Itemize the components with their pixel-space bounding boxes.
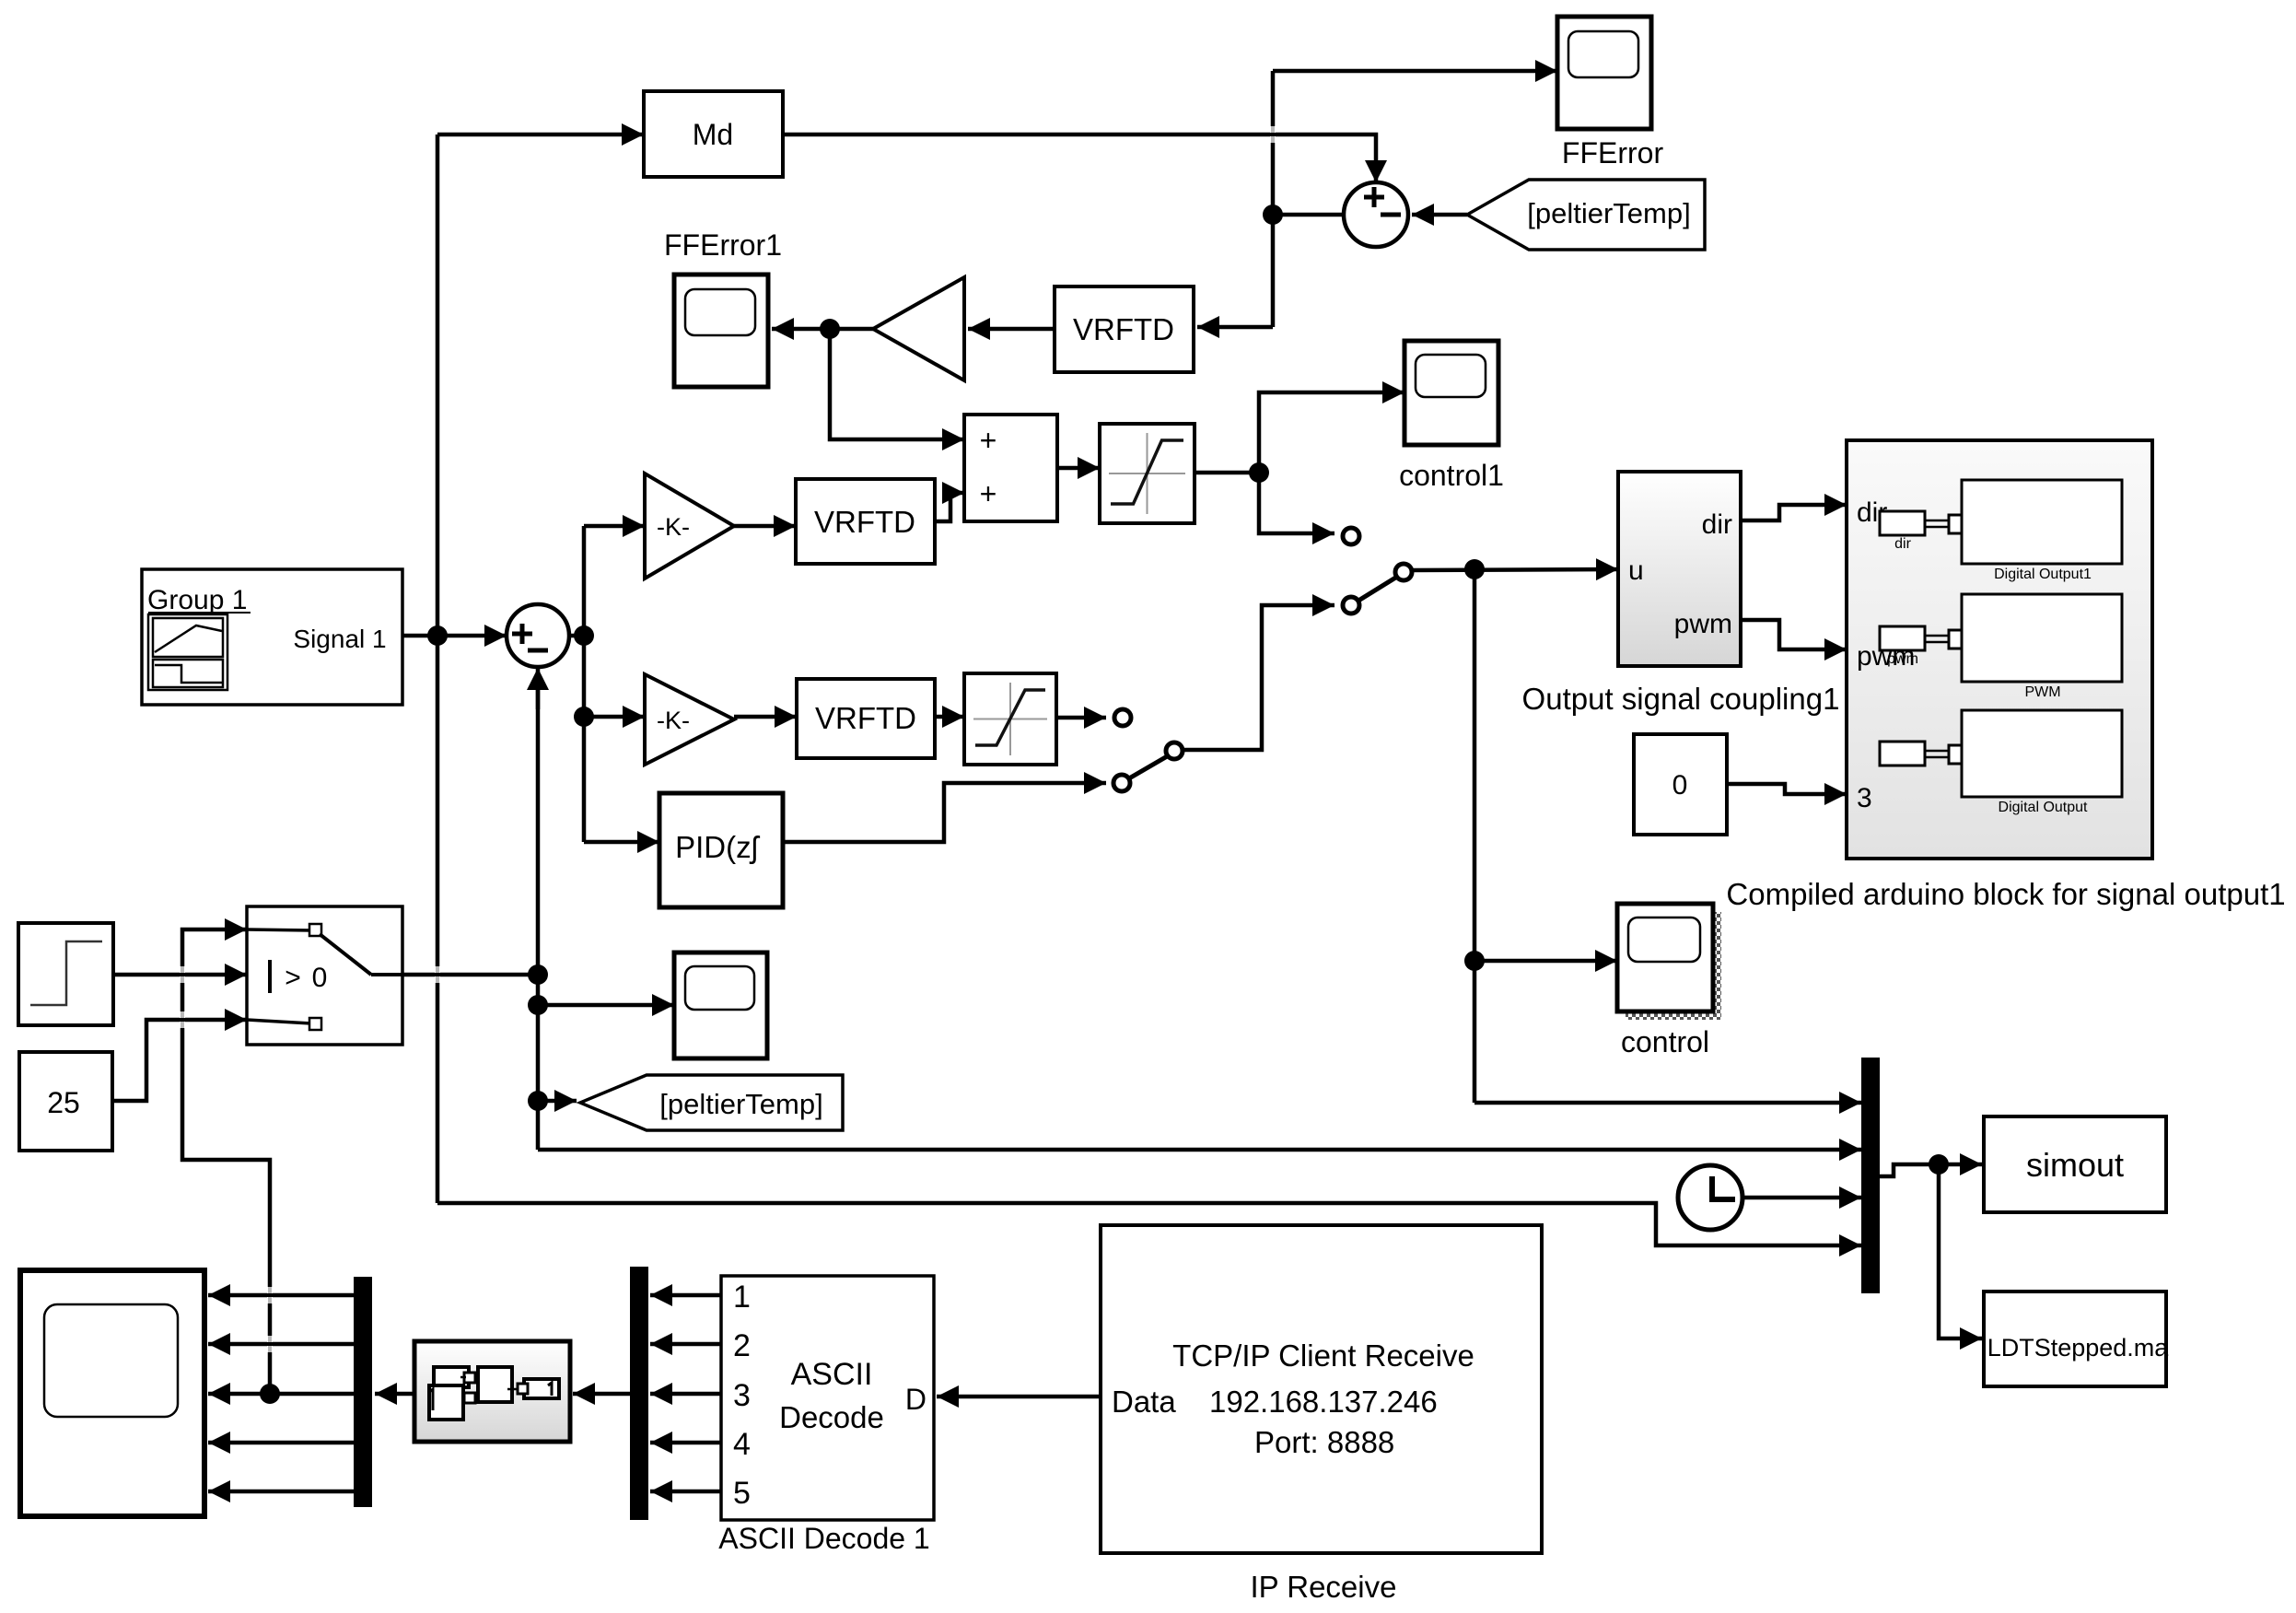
svg-text:LDTStepped.ma: LDTStepped.ma — [1987, 1334, 2170, 1362]
svg-text:5: 5 — [733, 1476, 751, 1511]
svg-text:Digital Output1: Digital Output1 — [1994, 567, 2092, 582]
svg-text:+: + — [980, 477, 997, 510]
svg-text:Group 1: Group 1 — [147, 585, 247, 615]
svg-text:pwm: pwm — [1674, 609, 1732, 639]
svg-text:+: + — [980, 424, 997, 457]
svg-text:3: 3 — [733, 1378, 751, 1413]
svg-text:Md: Md — [693, 118, 733, 151]
svg-text:PWM: PWM — [2024, 684, 2060, 700]
svg-text:FFError1: FFError1 — [664, 228, 782, 262]
svg-text:dir: dir — [1894, 536, 1911, 552]
svg-text:Signal 1: Signal 1 — [293, 625, 386, 653]
svg-text:pwm: pwm — [1887, 651, 1918, 667]
svg-text:Digital Output: Digital Output — [1999, 800, 2088, 815]
svg-text:Data: Data — [1112, 1385, 1176, 1419]
svg-text:0: 0 — [1672, 770, 1688, 801]
svg-text:3: 3 — [1857, 783, 1872, 813]
svg-text:0: 0 — [312, 963, 328, 993]
svg-text:ASCII Decode 1: ASCII Decode 1 — [718, 1522, 929, 1555]
svg-text:[peltierTemp]: [peltierTemp] — [1527, 197, 1690, 229]
svg-text:Decode: Decode — [779, 1400, 884, 1434]
svg-text:FFError: FFError — [1562, 136, 1664, 169]
svg-text:D: D — [905, 1383, 927, 1416]
svg-text:IP Receive: IP Receive — [1251, 1570, 1397, 1604]
svg-text:u: u — [1628, 555, 1644, 586]
svg-text:dir: dir — [1702, 509, 1732, 540]
svg-text:control1: control1 — [1399, 459, 1504, 492]
svg-text:4: 4 — [733, 1427, 751, 1462]
svg-text:Port: 8888: Port: 8888 — [1254, 1425, 1394, 1459]
svg-text:1: 1 — [733, 1280, 751, 1315]
svg-text:192.168.137.246: 192.168.137.246 — [1209, 1385, 1438, 1419]
svg-text:[peltierTemp]: [peltierTemp] — [659, 1088, 822, 1120]
svg-text:25: 25 — [47, 1086, 80, 1119]
svg-text:-K-: -K- — [657, 513, 690, 541]
svg-text:simout: simout — [2026, 1146, 2124, 1184]
svg-text:VRFTD: VRFTD — [814, 505, 915, 539]
svg-text:Compiled arduino block for sig: Compiled arduino block for signal output… — [1726, 877, 2285, 911]
svg-text:control: control — [1621, 1025, 1709, 1058]
svg-text:Output signal coupling1: Output signal coupling1 — [1522, 682, 1840, 716]
svg-text:-K-: -K- — [657, 707, 690, 734]
svg-text:2: 2 — [733, 1328, 751, 1363]
svg-text:ASCII: ASCII — [791, 1357, 873, 1392]
svg-text:VRFTD: VRFTD — [815, 701, 916, 735]
svg-text:PID(zʃ: PID(zʃ — [675, 830, 761, 864]
svg-text:TCP/IP Client Receive: TCP/IP Client Receive — [1172, 1338, 1474, 1373]
svg-text:VRFTD: VRFTD — [1073, 312, 1174, 346]
svg-text:>: > — [285, 963, 301, 993]
